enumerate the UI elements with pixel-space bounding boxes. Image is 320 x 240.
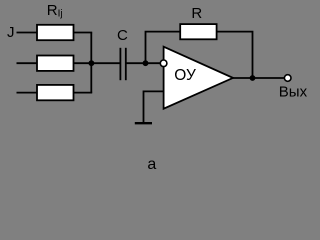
wire bus to capacitor <box>91 62 120 64</box>
wire input J to resistor row 1 <box>17 32 38 34</box>
resistor row 3 <box>37 85 74 100</box>
svg-text:а: а <box>147 156 156 173</box>
resistor R (feedback) <box>180 24 216 39</box>
op-amp inverting input bubble <box>160 60 167 67</box>
wire resistor row 2 to bus <box>74 62 92 64</box>
wire capacitor to inverting input <box>126 62 161 64</box>
terminal Vykh (output) <box>284 75 291 82</box>
wire vertical bus <box>90 33 92 93</box>
ground <box>135 122 152 124</box>
wire noninverting input to ground <box>144 91 164 123</box>
capacitor C <box>120 48 125 80</box>
junction output node <box>250 75 256 81</box>
op-amp U1 triangle <box>164 47 233 109</box>
label C <box>117 27 128 44</box>
resistor RIj (row 1) <box>37 25 74 40</box>
label Vykh <box>279 83 308 100</box>
svg-text:R: R <box>191 5 202 22</box>
junction inverting input node <box>143 60 149 66</box>
resistor row 2 <box>37 56 74 71</box>
wire input row 3 <box>17 92 38 94</box>
svg-text:C: C <box>117 27 128 44</box>
label R <box>191 5 202 22</box>
junction summing bus node <box>89 60 95 66</box>
wire resistor row 1 to bus <box>74 32 93 34</box>
label J (input) <box>7 24 15 41</box>
svg-text:ОУ: ОУ <box>174 67 196 84</box>
svg-text:J: J <box>7 24 15 41</box>
wire feedback to output <box>217 32 253 78</box>
wire feedback riser <box>146 32 181 64</box>
label RIj <box>47 2 63 20</box>
wire input row 2 <box>17 62 38 64</box>
label OU (op-amp designator) <box>174 67 196 84</box>
label a (figure caption) <box>147 156 156 173</box>
svg-text:Вых: Вых <box>279 83 308 100</box>
wire op-amp output <box>231 77 284 79</box>
wire resistor row 3 to bus <box>74 92 93 94</box>
